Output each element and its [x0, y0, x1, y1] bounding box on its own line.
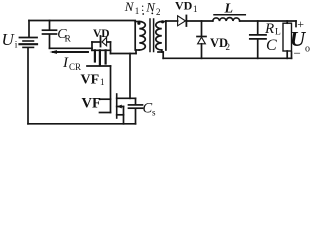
svg-text:s: s: [152, 108, 156, 118]
svg-text:VD: VD: [175, 0, 193, 13]
svg-text:VD: VD: [93, 28, 110, 40]
svg-text:L: L: [224, 1, 234, 16]
svg-text::: :: [141, 0, 144, 14]
svg-text:C: C: [143, 101, 153, 117]
svg-text:L: L: [275, 28, 281, 38]
svg-text:−: −: [294, 46, 301, 61]
svg-text:I: I: [62, 55, 69, 71]
svg-text:N: N: [124, 0, 135, 14]
svg-text:1: 1: [100, 77, 105, 87]
svg-text:U: U: [2, 30, 16, 49]
svg-text:C: C: [266, 37, 277, 54]
svg-text:+: +: [297, 17, 304, 31]
svg-text:CR: CR: [69, 62, 81, 72]
svg-text:1: 1: [135, 6, 140, 16]
svg-text:1: 1: [193, 4, 198, 14]
svg-text:VF: VF: [81, 73, 100, 88]
svg-text:o: o: [305, 44, 310, 55]
svg-text:2: 2: [226, 42, 231, 52]
svg-text:N: N: [145, 0, 156, 14]
svg-text:R: R: [65, 35, 72, 45]
svg-text:i: i: [15, 41, 18, 51]
svg-text:2: 2: [156, 7, 161, 17]
svg-text:R: R: [264, 21, 274, 37]
svg-text:VF: VF: [82, 96, 101, 112]
